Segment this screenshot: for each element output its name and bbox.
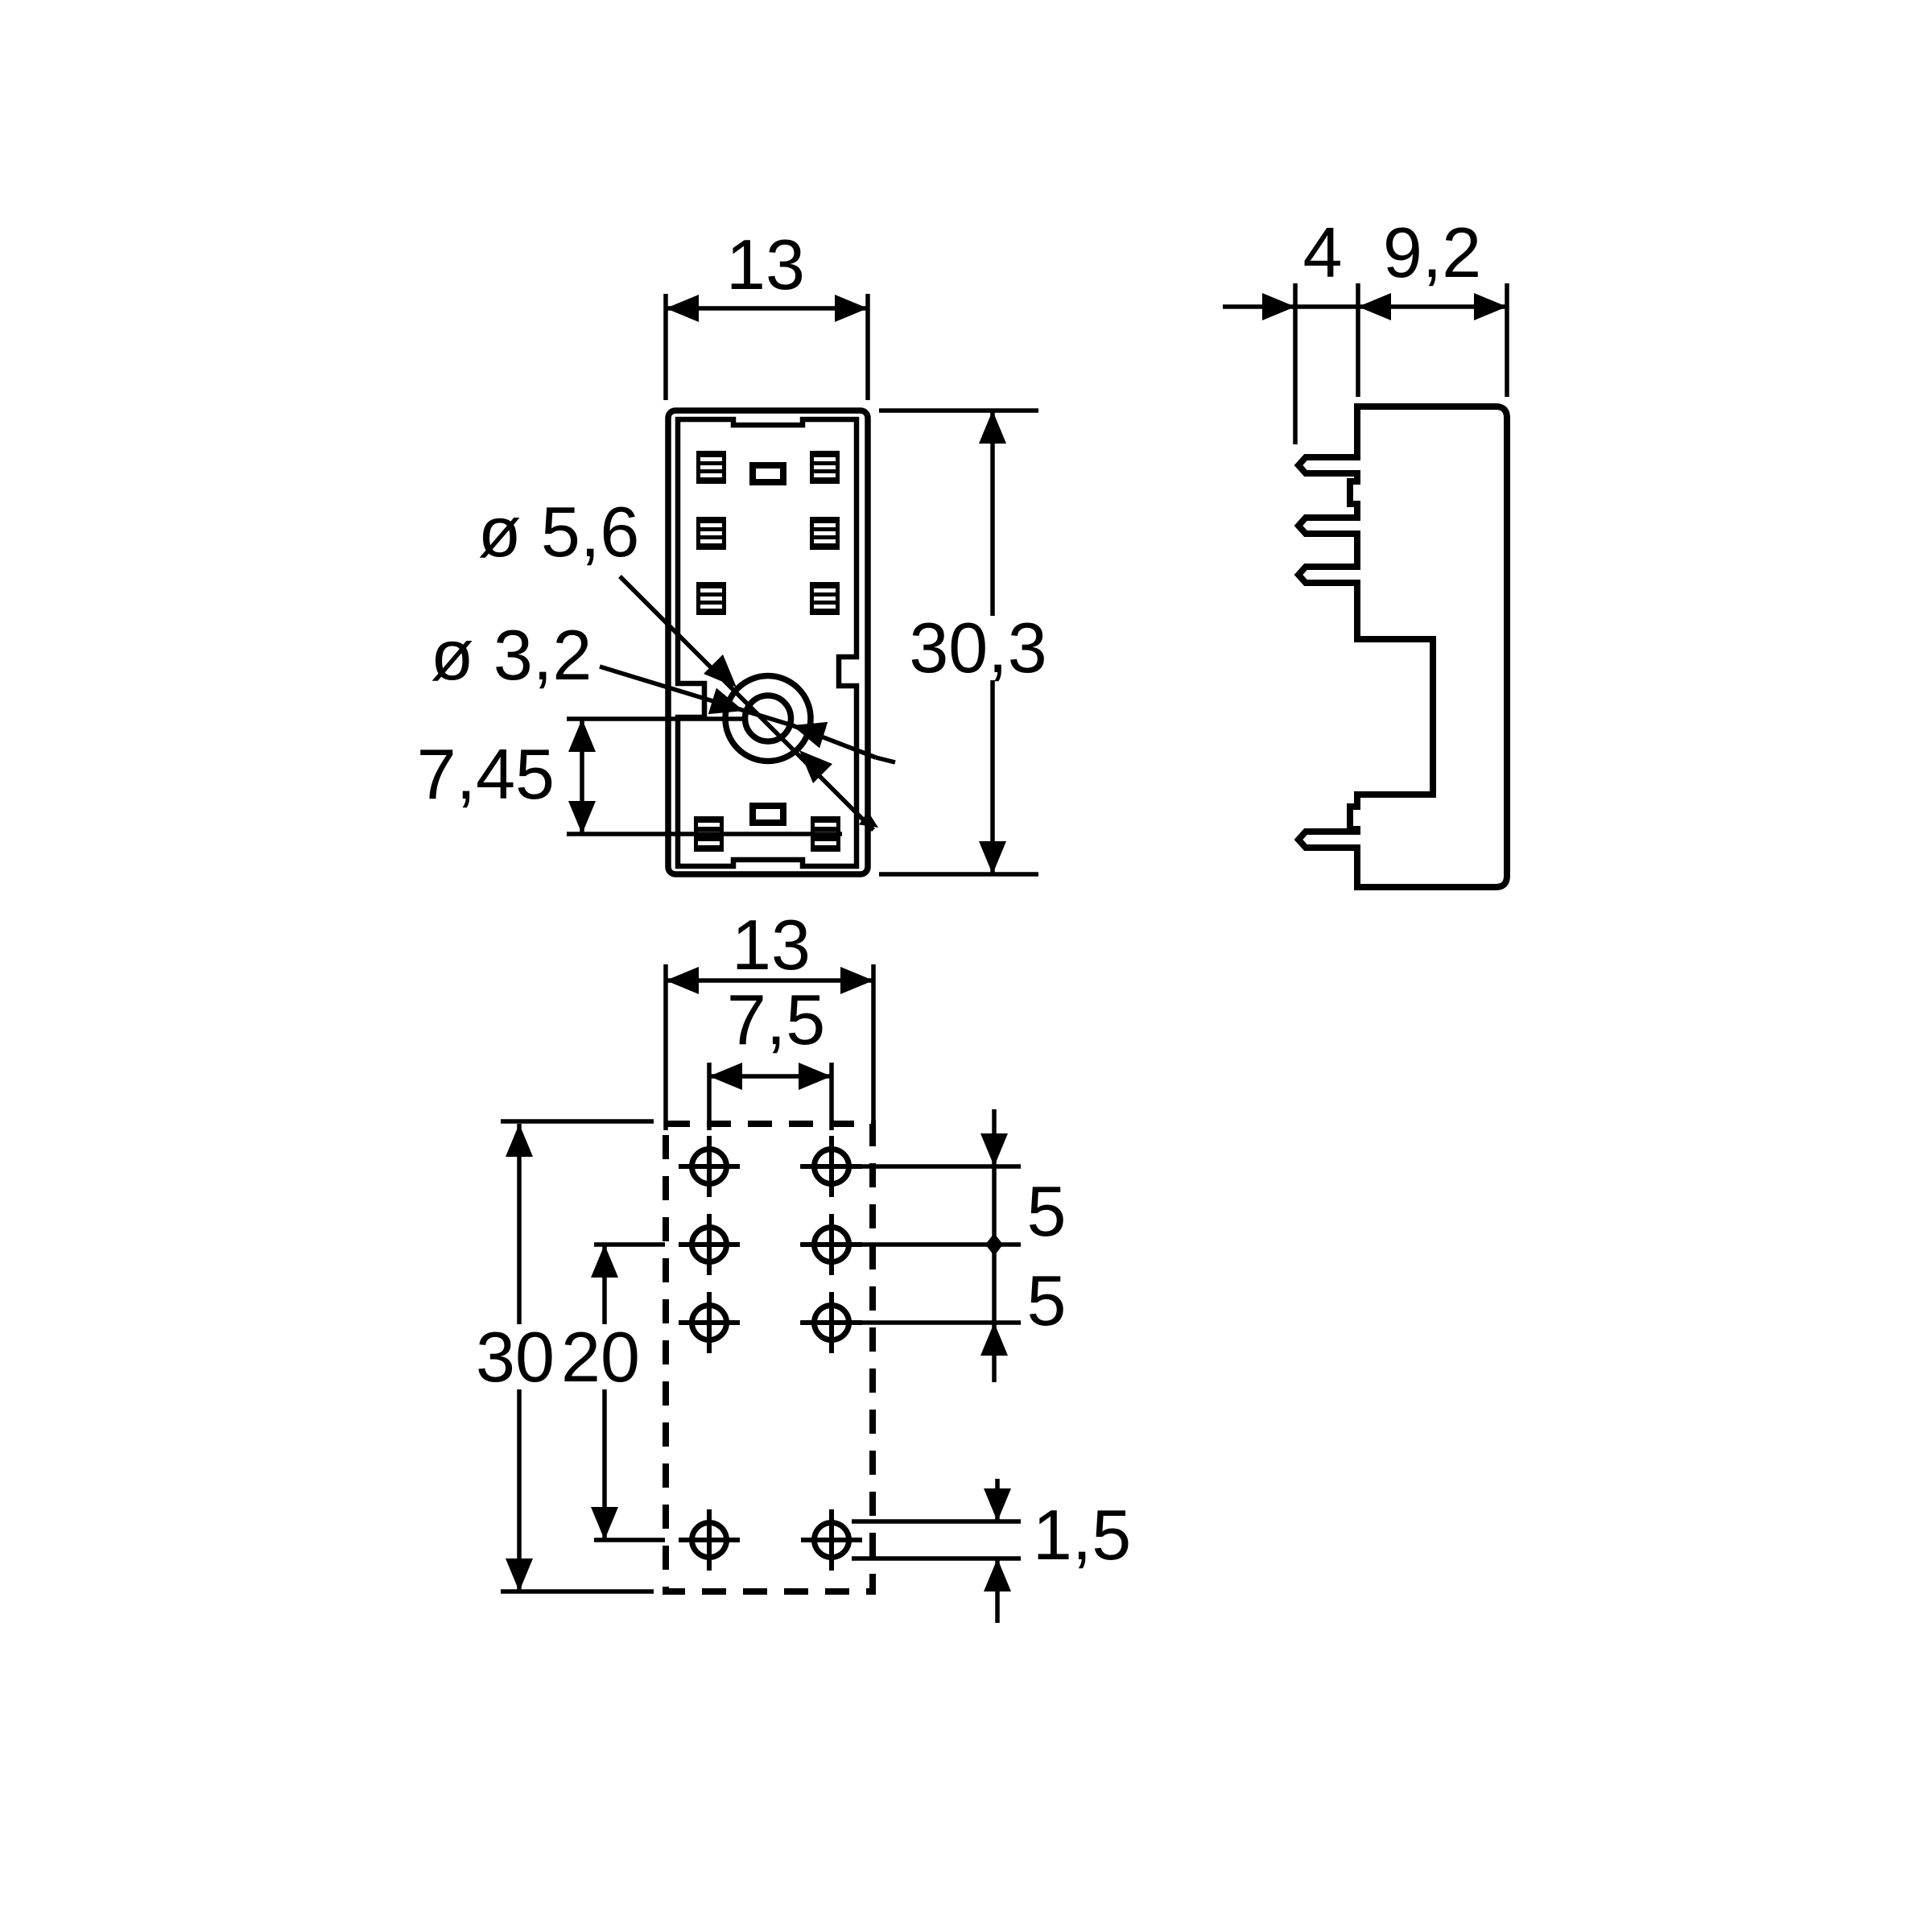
top view: center hole inner circle (o 3,2) [745,696,791,741]
svg-text:7,45: 7,45 [417,734,555,814]
bottom view: "1,5" dimension [852,1479,1131,1623]
top view: lower-left contact slot [696,582,726,615]
top view: bottom-right contact slot [811,816,840,852]
top view: lower-right contact slot [810,582,840,615]
top view: label o 5,6 with 45-degree leader [478,492,878,830]
svg-text:9,2: 9,2 [1383,213,1481,292]
bottom view: "20" dimension [561,1245,665,1540]
top view: socket body outer outline [668,411,868,874]
svg-text:ø 3,2: ø 3,2 [431,615,592,695]
svg-text:5: 5 [1027,1171,1067,1251]
top view: "13" width dimension [666,225,868,400]
svg-text:5: 5 [1027,1261,1067,1340]
top view: middle-right contact slot [810,517,840,550]
top view: bottom-left contact slot [694,816,724,852]
top view: bottom center keying window [753,806,783,823]
top view: top center keying window [753,465,783,482]
bottom view: drill hole row1 right [801,1136,862,1197]
side view: "4" dimension [1223,213,1507,444]
svg-text:13: 13 [732,905,811,985]
bottom view: drill hole row3 right [801,1292,862,1353]
side view: "9,2" dimension [1358,213,1507,397]
bottom view: PCB footprint dashed outline [666,1124,873,1591]
svg-text:1,5: 1,5 [1033,1495,1131,1575]
top view: upper-right contact slot [810,451,840,484]
bottom view: drill hole row4 left [679,1509,740,1571]
svg-text:4: 4 [1303,213,1343,292]
top view: center hole outer circle (o 5,6) [725,676,811,762]
top view: label o 3,2 with shallow leader [431,615,895,762]
svg-text:7,5: 7,5 [727,980,825,1059]
top view: upper-left contact slot [696,451,726,484]
bottom view: drill hole row4 right [801,1509,862,1571]
bottom view: drill hole row1 left [679,1136,740,1197]
bottom view: "30" dimension [476,1121,654,1591]
svg-text:30: 30 [476,1317,555,1397]
top view: middle-left contact slot [696,517,726,550]
bottom view: drill hole row2 left [679,1214,740,1275]
top view: "7,45" dimension [417,719,842,834]
side view: socket body profile with pins [1298,407,1507,887]
svg-text:13: 13 [726,225,805,304]
svg-text:ø 5,6: ø 5,6 [478,492,640,572]
top view: "30,3" height dimension [879,411,1047,874]
top view: socket body inner outline with notches [678,419,857,866]
bottom view: "7,5" dimension [709,980,832,1130]
bottom view: "5" and "5" chained dimensions [800,1109,1066,1382]
svg-text:20: 20 [561,1317,640,1397]
bottom view: drill hole row3 left [679,1292,740,1353]
bottom view: drill hole row2 right [801,1214,862,1275]
svg-text:30,3: 30,3 [909,608,1046,687]
bottom view: "13" dimension [666,905,873,1130]
